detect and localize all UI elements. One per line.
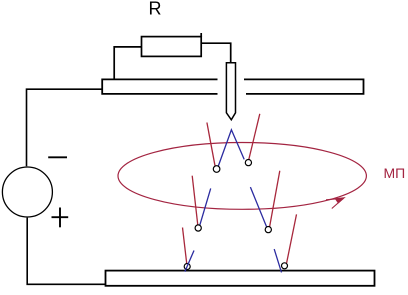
ion top-right [245,160,251,166]
voltage source U [2,167,52,217]
ion trajectory red middle-left [192,176,198,226]
ion trajectory red bottom-right [287,214,297,263]
ion top-left [213,166,220,173]
ion trajectory blue bottom-left [185,251,194,272]
magnetic field region МП ellipse [118,143,366,210]
arrow on field line [326,198,344,209]
bottom plate [106,271,375,286]
ion trajectory blue V below needle [218,130,244,167]
ion trajectory red bottom-left [183,228,187,265]
wire resistor left to top plate [114,47,141,80]
svg-text:R: R [149,0,162,19]
ion middle-left [195,225,201,231]
wire source bottom [27,218,105,285]
ion trajectory blue middle-left [200,188,211,225]
svg-text:МП: МП [384,165,406,181]
ion trajectory red middle-right [269,171,280,229]
ion bottom-right [282,263,288,269]
plus terminal [52,208,69,228]
ion trajectory red top-left [207,123,215,166]
needle electrode [226,63,235,120]
ion bottom-left [184,264,190,270]
top plate left segment [102,79,217,94]
minus terminal [48,156,67,158]
ion trajectory blue middle-right [250,187,267,228]
ion middle-right [265,227,271,233]
resistor R [142,33,202,56]
wire source top [27,89,103,166]
wire resistor right to needle [201,43,231,63]
ion trajectory red top-right [249,114,260,160]
ion trajectory blue bottom-right [274,249,281,272]
top plate right segment [244,79,364,94]
